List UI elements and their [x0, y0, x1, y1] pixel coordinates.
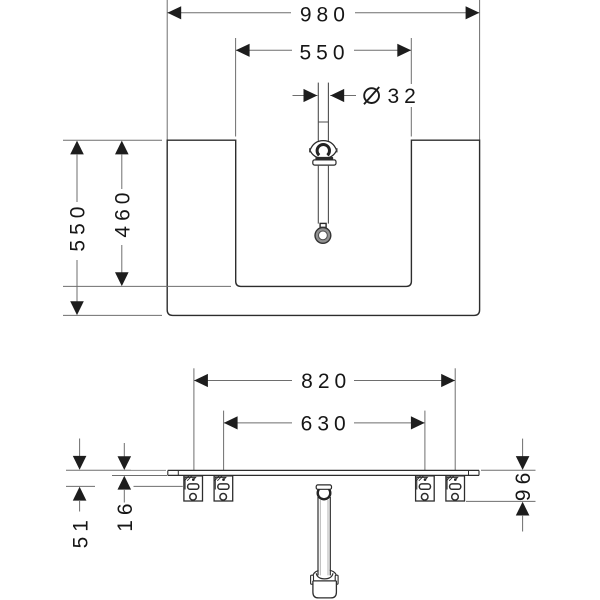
dimension Ø32 right leader: [330, 95, 356, 97]
mounting bracket 1: [184, 476, 203, 501]
trap cup body: [313, 581, 337, 598]
arrow 630 right: [411, 416, 425, 429]
trap pipe left line: [317, 497, 319, 575]
extension line 550 lower ref: [63, 314, 162, 316]
trap pipe right line: [329, 497, 331, 575]
extension line 820 right: [454, 368, 456, 470]
trap pipe inner gray lines: [319, 500, 321, 575]
console slab left end: [167, 470, 169, 475]
trap cup rim line: [313, 580, 337, 582]
drain pipe upper (right line): [327, 83, 329, 141]
svg-text:96: 96: [512, 468, 535, 501]
extension line 550 right (gap for Ø32 text): [410, 38, 412, 84]
console slab right end: [478, 470, 480, 475]
dimension 96: upper arrow: [522, 439, 524, 457]
svg-text:550: 550: [299, 42, 349, 65]
arrow Ø32 left (points right): [304, 89, 318, 102]
arrow 820 left: [194, 374, 208, 387]
svg-text:820: 820: [301, 370, 351, 393]
trap cup right tab: [335, 575, 338, 584]
arrow 550 left: [236, 44, 250, 57]
svg-text:32: 32: [388, 85, 421, 108]
extension line left top (550/460 upper ref): [63, 139, 162, 141]
drain hose right line: [327, 165, 329, 224]
drain fitting dark collar bar: [315, 157, 333, 160]
console outline (U shaped part): [167, 140, 479, 315]
dimension 550 line: [236, 49, 292, 51]
arrow Ø32 right (points left): [330, 89, 344, 102]
dimension 980 line: [167, 12, 291, 14]
dimension 460 vertical: top arrow: [115, 141, 129, 155]
trap cup collar inner arc: [316, 573, 333, 579]
dimension 16: upper arrow: [123, 443, 125, 457]
drain fitting ring (horseshoe open at bottom): [317, 144, 329, 155]
arrow 550 right: [397, 44, 411, 57]
dimension Ø32 left leader: [293, 95, 318, 97]
mounting bracket 2: [214, 476, 233, 501]
drain fitting eye notch left: [309, 148, 311, 152]
drain fitting eye outline: [310, 141, 337, 159]
svg-text:16: 16: [114, 498, 137, 531]
svg-text:630: 630: [301, 413, 351, 436]
svg-text:51: 51: [69, 515, 92, 548]
svg-text:550: 550: [67, 202, 90, 252]
dimension 550 vertical: top arrow: [70, 141, 84, 155]
dimension 51: lower arrow: [73, 487, 87, 501]
trap flange: [316, 485, 331, 489]
arrow 630 left: [224, 416, 238, 429]
dimension 550 vertical: bottom arrow: [70, 301, 84, 315]
arrow 820 right: [441, 374, 455, 387]
arrow 980 right: [466, 6, 480, 19]
extension line 980 right: [479, 0, 481, 140]
dimension 460 vertical: bottom arrow: [115, 272, 129, 286]
drain pipe upper (left line): [317, 83, 319, 141]
trap cup collar dome: [313, 570, 337, 577]
extension line 630 right: [424, 411, 426, 471]
drain hose end ring: [315, 228, 331, 244]
extension line 96 upper ref: [481, 469, 536, 471]
dimension 630 line: [224, 422, 292, 424]
drain fitting eye notch right: [336, 148, 338, 152]
label Ø32: diameter symbol: [364, 88, 379, 103]
console slab bottom edge: [168, 474, 479, 476]
trap cup left tab: [311, 575, 314, 584]
extension line 550 left: [235, 38, 237, 137]
extension line 820 left: [193, 368, 195, 470]
extension line 96 lower ref (bracket bottom): [466, 500, 536, 502]
dimension 820 line: [194, 380, 292, 382]
drain hose end tab: [320, 223, 326, 227]
console slab top edge: [168, 469, 479, 471]
extension line 980 left: [166, 0, 168, 140]
drain pipe joint step: [318, 121, 328, 123]
mounting bracket 4: [446, 476, 465, 501]
svg-text:460: 460: [111, 188, 134, 238]
mounting bracket 3: [416, 476, 435, 501]
arrow 980 left: [167, 6, 181, 19]
extension line 630 left: [223, 411, 225, 471]
extension line 16 lower ref (slab bottom): [112, 475, 167, 477]
dimension 16: lower arrow: [118, 476, 132, 490]
extension line 460 lower ref: [63, 285, 231, 287]
trap pipe body: [319, 497, 330, 575]
svg-text:980: 980: [300, 4, 350, 27]
trap loop: [318, 487, 331, 500]
extension line 51 lower ref (bracket hole axis): [66, 485, 95, 487]
shared extension line slab top (51/16 upper ref): [66, 469, 131, 471]
dimension 96: lower arrow: [516, 502, 530, 516]
dimension 51: upper arrow: [79, 439, 81, 458]
drain fitting collar: [313, 160, 336, 165]
drain hose left line: [317, 165, 319, 224]
